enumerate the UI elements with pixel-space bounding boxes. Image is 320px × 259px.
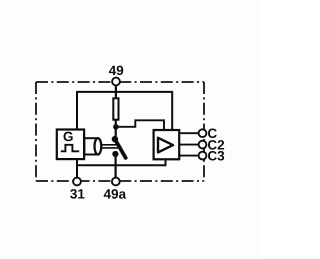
label 49 xyxy=(109,66,123,76)
terminal 49 xyxy=(112,78,120,86)
solenoid end cap ellipse xyxy=(95,138,102,154)
wire: resistor R1 to switch pivot xyxy=(115,121,117,140)
wire: inner rail bottom edge up to amplifier box bottom xyxy=(76,159,166,165)
wire: junction to amplifier input (stepped) xyxy=(116,120,164,130)
wire: inner rail top edge and right edge down to amplifier box xyxy=(77,92,172,130)
label G xyxy=(64,132,73,142)
mechanical link lines to switch bar xyxy=(101,145,118,148)
terminal C3 xyxy=(199,152,207,160)
dash-dot enclosure border right edge xyxy=(203,82,205,181)
wire: amplifier output to terminal C2 xyxy=(179,144,199,146)
wire: amplifier output to terminal C3 xyxy=(179,155,199,157)
label C2 xyxy=(208,140,224,150)
amplifier triangle symbol xyxy=(158,138,173,153)
dash-dot enclosure border bottom edge xyxy=(36,180,204,182)
label C xyxy=(208,128,217,138)
wire: switch lower contact down to terminal 49a xyxy=(114,153,116,178)
terminal C xyxy=(199,129,207,137)
label C3 xyxy=(208,151,224,161)
terminal 31 xyxy=(73,178,81,186)
switch upper contact node xyxy=(112,136,118,142)
node junction below resistor xyxy=(113,124,119,130)
switch S1 movable bar xyxy=(115,139,126,158)
pulse generator box G1 xyxy=(57,130,84,160)
amplifier box U1 xyxy=(154,130,180,159)
wire: inner rail left edge from top rail down to terminal 31 xyxy=(76,91,78,178)
label 49a xyxy=(104,189,126,199)
switch lower contact node xyxy=(112,151,118,157)
terminal 49a xyxy=(112,178,120,186)
wire: amplifier output to terminal C xyxy=(179,132,199,134)
dash-dot enclosure border left edge xyxy=(35,82,37,181)
wire: terminal 49 down to resistor R1 xyxy=(115,85,117,98)
solenoid actuator body xyxy=(84,138,97,154)
label 31 xyxy=(70,189,84,199)
pulse waveform symbol xyxy=(61,145,79,152)
resistor R1 xyxy=(113,98,118,119)
dash-dot enclosure border top edge xyxy=(36,81,204,83)
terminal C2 xyxy=(199,141,207,149)
